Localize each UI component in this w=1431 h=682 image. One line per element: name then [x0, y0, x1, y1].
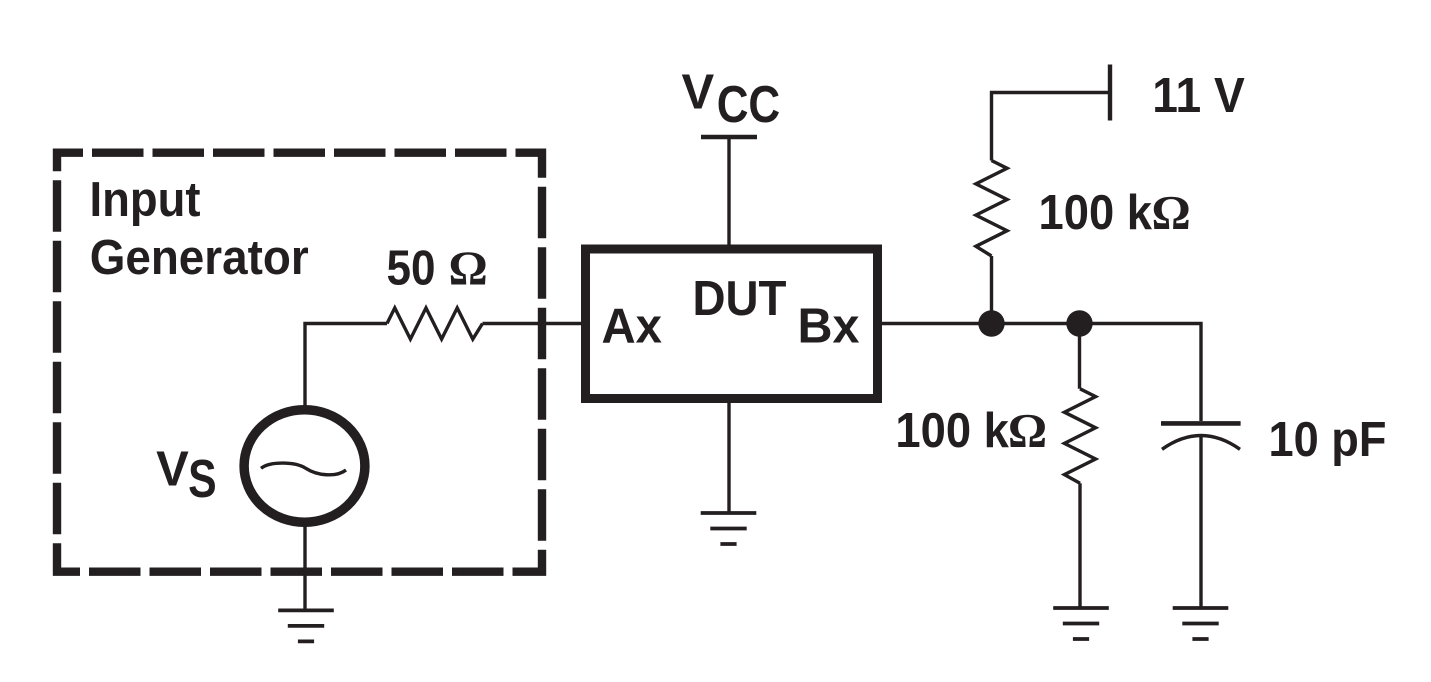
svg-text:V: V	[156, 442, 189, 496]
svg-text:CC: CC	[717, 75, 781, 133]
svg-text:11 V: 11 V	[1152, 69, 1245, 123]
svg-text:50: 50	[387, 242, 436, 296]
svg-text:Ω: Ω	[1008, 403, 1047, 458]
svg-text:DUT: DUT	[693, 272, 787, 326]
svg-text:Ω: Ω	[449, 241, 488, 296]
svg-text:Input: Input	[90, 173, 201, 227]
svg-text:V: V	[682, 65, 715, 119]
svg-text:Generator: Generator	[90, 231, 309, 285]
svg-text:Ω: Ω	[1152, 185, 1191, 240]
svg-text:100 k: 100 k	[895, 404, 1009, 458]
svg-text:10 pF: 10 pF	[1269, 413, 1387, 467]
svg-text:S: S	[188, 450, 217, 509]
svg-text:Bx: Bx	[798, 299, 860, 353]
svg-text:Ax: Ax	[602, 299, 663, 353]
svg-text:100 k: 100 k	[1039, 186, 1153, 240]
